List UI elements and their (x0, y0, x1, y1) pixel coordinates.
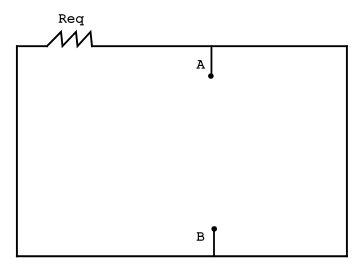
value label Req (59, 15, 84, 26)
wire: left side (16, 46, 18, 256)
wire: top segment from resistor to top-right corner (92, 45, 347, 47)
terminal B stub wire (213, 231, 215, 257)
node B terminal dot (211, 226, 217, 232)
node label B (197, 233, 204, 241)
node A terminal dot (208, 73, 214, 79)
resistor Req (sawtooth zigzag) (47, 32, 92, 46)
node label A (197, 60, 205, 68)
wire: bottom (17, 255, 347, 257)
terminal A stub wire (210, 46, 212, 74)
wire: top-left segment from left corner to resistor (17, 45, 47, 47)
wire: right side (346, 46, 348, 256)
